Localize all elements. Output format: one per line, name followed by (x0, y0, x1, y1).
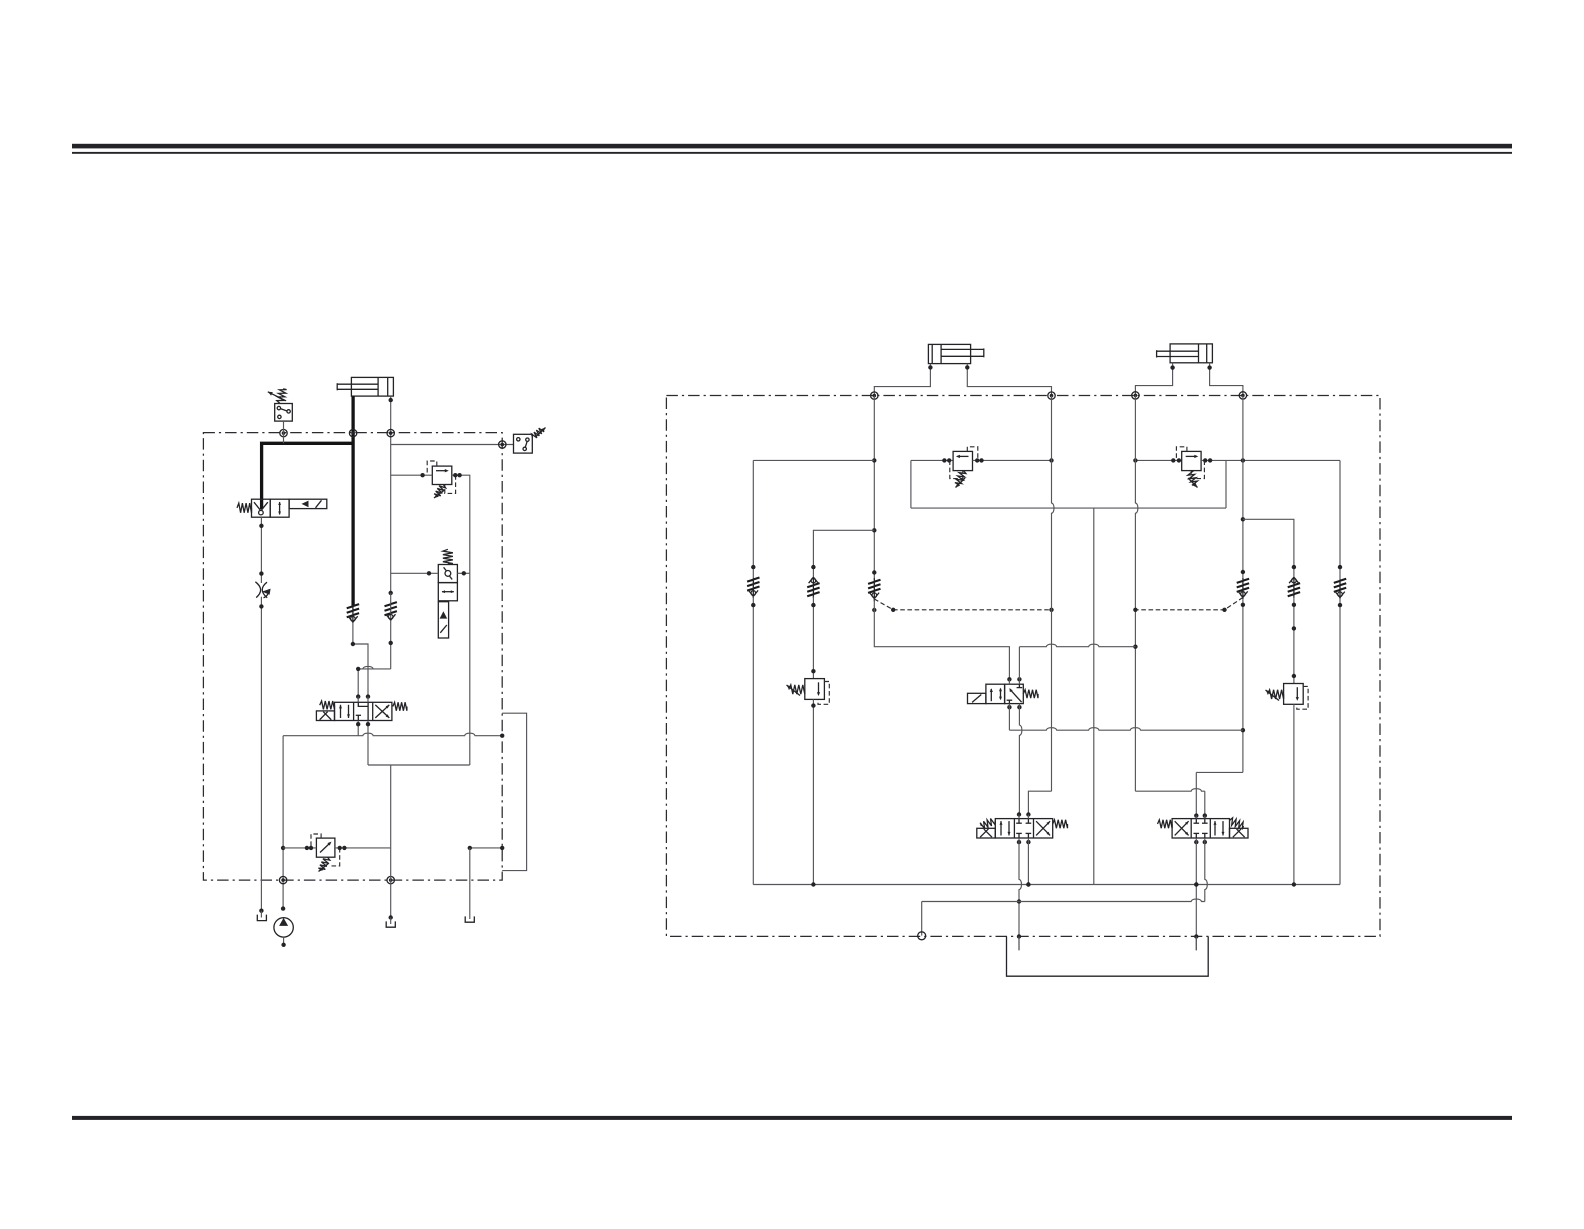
wire - CB1 outlet (457, 572, 469, 574)
wire - bold branch to valve V2 (262, 443, 355, 509)
node - boundary open node (918, 932, 926, 940)
pressure switch PS2 (514, 434, 533, 453)
node - boundary node right (387, 429, 394, 436)
wire - RV1 outlet to drain column (452, 475, 470, 573)
pilot stage of CB1 (438, 602, 448, 638)
wire - tank bus (753, 884, 1340, 886)
wire - SV1 top port stubs (1007, 677, 1011, 681)
cylinder A3 (right diagram right) (1170, 344, 1212, 363)
reducing valve RD2 (1182, 451, 1201, 470)
pilot dashed of RV2 (311, 834, 321, 848)
spring right of SVB (1230, 818, 1244, 830)
wire - V1 port T stub to gallery (367, 721, 369, 766)
spring of RV1 (434, 485, 446, 496)
pilot line dashed of RV1 (427, 461, 437, 475)
cylinder A1 (left diagram) (351, 377, 393, 396)
wire - A2 ports to boundary nodes (874, 364, 930, 396)
manifold block (power unit interface) (1007, 937, 1209, 977)
wire - CV3 down and over to pilot valve SV1 (874, 599, 1009, 680)
wire - A3 cap side into valve SVB (1135, 789, 1204, 791)
tank symbol T2 (386, 921, 395, 927)
wire - U link under RD2 (1225, 460, 1227, 508)
spring of SV1 (1023, 690, 1038, 698)
spring of RD1 (955, 471, 966, 484)
wire - A3 rod side down to valve SVB (1242, 599, 1244, 772)
solenoid actuator of valve V2 (289, 499, 327, 508)
wire - PR2 to bus (1293, 704, 1295, 884)
pilot line dashed left (874, 599, 1051, 610)
node - boundary bottom node left (279, 876, 286, 883)
wire - relief line (283, 847, 316, 849)
wire - SV1 bottom left to tank header (1007, 705, 1011, 709)
wire - CV7 to PR2 (1293, 597, 1295, 684)
node - A3 boundary node right (1239, 392, 1246, 399)
wire - column A2 rod side (1052, 396, 1054, 792)
wire - pilot return line (921, 902, 923, 936)
wire - U link under RD1 (910, 460, 912, 508)
wire - pump suction stub (283, 937, 285, 945)
check valve CV8 (ball check) (1339, 579, 1341, 599)
pressure switch PS1 (275, 404, 293, 422)
check valve CV1 (bold line, spring) (352, 606, 354, 623)
spring right of V1 (393, 702, 407, 710)
wire - SV1 bottom right down to valve SVA (1019, 704, 1021, 815)
wire - branch to pilot relief PR2 (1243, 519, 1294, 577)
check valve CV6 (ball check) (1242, 578, 1244, 599)
spring of valve V2 (237, 503, 252, 513)
header rule thick (72, 144, 1512, 149)
spring of PR2 (1268, 690, 1284, 699)
wire - return to tank T2 (390, 848, 392, 918)
wire - drain column down to manifold (469, 573, 471, 765)
adjustable spring arrow of PS2 (532, 428, 545, 438)
pump P1 (274, 918, 293, 937)
relief valve RV1 (pilot operated) (432, 466, 452, 484)
wire - pump riser (282, 736, 284, 909)
adjustable spring arrow of PS1 (277, 389, 287, 403)
wire - tank gallery bottom (368, 764, 470, 766)
check valve CV7 (ball check, spring below) (1293, 577, 1295, 598)
wire - column A3 rod side (1242, 395, 1244, 578)
wire - CV1 to junction (353, 622, 368, 696)
spring of CB1 (443, 549, 453, 563)
wire - port stub T (1195, 937, 1197, 951)
wire - SVB bottom right to pilot return (1205, 838, 1207, 902)
node - boundary node left (280, 429, 287, 436)
solenoid of SVA (977, 828, 996, 838)
wire - CB1 inlet (391, 572, 439, 574)
external port loop (left diagram) (502, 713, 526, 870)
node - boundary node on right edge (499, 441, 506, 448)
solenoid valve V2 2/2 (left) (252, 499, 271, 517)
wire - rod-side top branch to PS2 (391, 444, 514, 446)
wire - branch to pilot relief PR1 (813, 530, 874, 577)
wire - pressure line across reducing valves (left part) (753, 459, 874, 461)
wire - SVA bottom left through bus to tank port (1019, 838, 1021, 950)
wire - gallery drop to relief line (390, 765, 392, 848)
wire - drain to tank T3 (469, 848, 471, 914)
wire - pressure line right segment (1135, 459, 1181, 461)
right circuit boundary (dash-dot enclosure) (666, 396, 1380, 937)
wire - column A3 cap side (1135, 395, 1137, 791)
cylinder A2 (right diagram left) (928, 344, 970, 363)
wire - PR1 to bus (812, 699, 814, 884)
wire - outer left column to bus (752, 596, 754, 884)
wire - RD1 inlet link (911, 459, 953, 461)
pilot dashed of RD1 (967, 447, 978, 461)
wire - SVA port stubs (1017, 812, 1021, 816)
wire - RV1 inlet (391, 474, 433, 476)
tank symbol T3 (465, 916, 474, 922)
wire - valve V2 to flow control (260, 517, 262, 583)
spring of RV2 (318, 857, 329, 869)
spring right of SVA (1053, 820, 1068, 828)
tank symbol T1 (257, 915, 266, 921)
wire - outer right column (1339, 460, 1341, 579)
pilot relief valve PR2 (1284, 684, 1304, 705)
spring left of SVB (1158, 820, 1173, 828)
wire - outer right column to bus (1339, 598, 1341, 885)
wire - V1 port B stub (366, 694, 370, 698)
wire - V1 port A stub (356, 694, 360, 698)
wire - PS1 stem (283, 421, 285, 443)
spring left of SVA (980, 819, 995, 829)
wire - RD2 outlet to outer right column (1201, 459, 1340, 461)
pilot line dashed right (1135, 597, 1243, 609)
check valve CV5 (ball check) (752, 578, 754, 598)
pilot dashed of RD2 (1176, 447, 1187, 461)
solenoid of SVB (1230, 828, 1249, 838)
spring of RD2 (1188, 471, 1198, 486)
wire - pressure manifold line (283, 733, 502, 735)
wire - CV2 down to valve V1 port A (358, 666, 391, 668)
wire - cylinder A1 rod-side line (390, 396, 392, 593)
solenoid left of V1 (316, 711, 334, 721)
spring left of V1 (320, 701, 335, 709)
node - A3 boundary node left (1132, 392, 1139, 399)
wire - V1 port P stub (357, 721, 359, 736)
flow control valve FC1 (variable restrictor) (255, 582, 260, 598)
wire - flow control to tank line (260, 597, 262, 911)
wire - SVB port stubs (1194, 813, 1198, 817)
node - A2 boundary node right (1048, 392, 1055, 399)
pilot relief valve PR1 (805, 679, 825, 700)
wire - CV4 to PR1 (812, 597, 814, 679)
wire - RD1 outlet link (973, 459, 1052, 461)
wire - column A2 cap side (873, 396, 875, 578)
check valve CV3 (873, 578, 875, 601)
node - A2 boundary node left (871, 392, 878, 399)
spring of PR1 (789, 685, 805, 694)
header rule thin (72, 152, 1512, 154)
wire - SVA bottom right to bus (1027, 838, 1029, 885)
wire - SV1 pilot feed line (1018, 647, 1020, 680)
left circuit boundary (dash-dot enclosure) (203, 433, 502, 880)
node - boundary bottom node right (387, 876, 394, 883)
check valve CV2 (rod side) (389, 591, 393, 595)
wire - SVB bottom left to bus and tank port (1195, 838, 1197, 950)
wire - outer left column (752, 460, 754, 578)
wire - A2 rod side into valve SVA (1028, 791, 1051, 814)
pilot solenoid valve SV1 (centre) (968, 693, 986, 703)
relief valve RV2 (system relief) (316, 838, 335, 857)
pilot dashed of PR2 (1297, 686, 1308, 709)
wire - centre drop to bus (1093, 508, 1095, 884)
wire - port stub P (1018, 937, 1020, 951)
check valve CV4 (ball check, spring below) (812, 577, 814, 598)
footer rule (72, 1116, 1512, 1120)
pilot dashed of PR1 (818, 682, 829, 705)
node - boundary node mid (bold line) (349, 429, 356, 436)
wire - bold line cylinder A1 cap-side down (351, 396, 354, 605)
wire - A3 ports to boundary nodes (1135, 363, 1172, 396)
